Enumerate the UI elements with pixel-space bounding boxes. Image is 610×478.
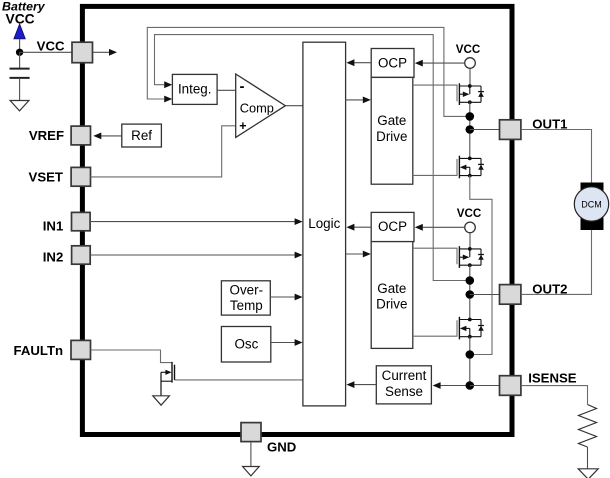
svg-text:-: - [240, 78, 245, 95]
pin OUT2 [500, 281, 568, 304]
svg-text:VSET: VSET [29, 170, 63, 185]
wire Gate Drive 1 to Q2 gate [413, 159, 457, 175]
block Ref [122, 124, 162, 147]
wire Current Sense to Logic arrow [346, 381, 376, 388]
svg-text:FAULTn: FAULTn [14, 343, 64, 358]
wire node to capacitor [19, 52, 21, 68]
wire IN1 to Logic [90, 218, 303, 225]
wire OUT1 pin to motor [521, 130, 592, 183]
ground battery [10, 101, 29, 111]
node phase OUT2 [466, 290, 475, 299]
pin ISENSE [500, 370, 577, 395]
transistor Q4 low-side OUT2 [459, 317, 484, 340]
svg-text:IN2: IN2 [43, 249, 64, 264]
wire VCC2 to OCP2 arrow [415, 224, 465, 231]
svg-text:VCC: VCC [456, 43, 481, 56]
label VCC supply 2 [457, 207, 482, 220]
block Gate Drive 1 [371, 77, 413, 184]
wire resistor to ground [587, 447, 589, 469]
wire OCP2 to Logic arrow [346, 224, 371, 231]
wire Q4 source to sense node [469, 337, 471, 386]
pin OUT1 [500, 117, 568, 140]
pin VCC [37, 38, 93, 62]
svg-text:Osc: Osc [234, 336, 258, 351]
svg-text:VCC: VCC [457, 207, 482, 220]
wire Logic to Gate Drive 2 arrow [346, 251, 371, 258]
svg-text:VREF: VREF [29, 128, 64, 143]
pin FAULTn [14, 340, 91, 359]
svg-text:IN1: IN1 [43, 219, 64, 234]
svg-text:VCC: VCC [37, 38, 65, 53]
wire IN2 to Logic [90, 252, 302, 259]
wire VCC1 to OCP1 arrow [415, 60, 465, 67]
transistor Q2 low-side OUT1 [459, 156, 484, 179]
capacitor C1 [10, 69, 30, 78]
pin VSET [29, 167, 91, 186]
terminal VCC supply 2 [465, 222, 476, 233]
wire Ref to VREF arrow [93, 133, 122, 140]
motor DCM [574, 183, 608, 231]
wire FAULTn to fault transistor drain [91, 350, 173, 363]
wire Integ to comparator minus input [217, 89, 236, 91]
svg-text:Temp: Temp [230, 298, 263, 313]
block Osc [221, 327, 270, 363]
wire Logic to fault transistor gate [175, 379, 303, 381]
pin IN1 [43, 212, 90, 233]
wire sense node to ISENSE pin [470, 385, 500, 387]
label VCC battery [6, 11, 35, 26]
ground GND pin [243, 467, 260, 476]
svg-text:OCP: OCP [378, 219, 407, 234]
block Logic [303, 42, 346, 406]
wire Gate Drive 1 to Q1 gate [413, 85, 457, 101]
wire Q3 source to phase node OUT2 [469, 265, 471, 319]
svg-text:ISENSE: ISENSE [528, 370, 577, 385]
svg-text:GND: GND [267, 439, 296, 454]
node phase OUT2 feedback [466, 276, 475, 285]
node phase OUT1 feedback [466, 112, 475, 121]
node battery VCC [16, 49, 23, 56]
wire capacitor to ground [19, 78, 21, 101]
wire node to VCC pin [20, 51, 72, 53]
node phase OUT1 [466, 125, 475, 134]
wire battery arrow to node [19, 39, 21, 53]
wire comparator output to Logic [285, 105, 303, 107]
wire GND pin to ground [250, 442, 252, 467]
ground fault transistor [153, 396, 170, 405]
svg-text:Gate: Gate [377, 281, 406, 296]
wire Logic to Gate Drive 1 arrow [346, 97, 371, 104]
resistor Rsense [579, 405, 597, 448]
svg-text:Logic: Logic [308, 216, 340, 231]
node sense B [466, 381, 475, 390]
svg-text:Gate: Gate [377, 113, 406, 128]
wire VSET to comparator plus input [91, 126, 236, 177]
block Current Sense [376, 366, 431, 404]
svg-text:Drive: Drive [376, 297, 407, 312]
terminal VCC supply 1 [465, 58, 476, 69]
wire OCP1 to Logic arrow [346, 59, 371, 66]
battery supply arrow (blue) [14, 24, 25, 39]
pin VREF [29, 126, 91, 145]
svg-text:Sense: Sense [385, 384, 423, 399]
svg-text:Current: Current [382, 368, 427, 383]
transistor Q1 high-side OUT1 [459, 83, 484, 105]
wire Gate Drive 2 to Q4 gate [413, 320, 457, 336]
pin IN2 [43, 246, 90, 265]
feedback wire outer loop OUT1 to Integ lower input [147, 27, 470, 116]
svg-text:Ref: Ref [131, 128, 152, 143]
svg-text:OCP: OCP [378, 55, 407, 70]
wire motor to OUT2 pin [521, 230, 592, 295]
label VCC supply 1 [456, 43, 481, 56]
wire phase node to OUT1 pin [470, 129, 500, 131]
block Gate Drive 2 [371, 242, 413, 349]
ground resistor [578, 469, 598, 478]
label Battery [2, 0, 46, 14]
svg-text:Over-: Over- [230, 282, 263, 297]
svg-text:Integ.: Integ. [178, 82, 212, 97]
block OCP1 [371, 49, 414, 78]
svg-text:DCM: DCM [581, 199, 602, 209]
wire VCC1 to Q1 drain [469, 68, 471, 86]
wire Over-Temp to Logic arrow [270, 294, 302, 301]
wire sense node to Current Sense arrow [433, 382, 470, 389]
op-amp Comp [236, 74, 286, 137]
transistor Q5 fault open-drain [161, 362, 175, 396]
chip outline U1 [82, 6, 512, 434]
svg-text:Comp: Comp [240, 101, 274, 116]
node sense A [466, 350, 475, 359]
wire ISENSE pin to resistor [521, 386, 588, 405]
wire Q1 source to phase node OUT1 [469, 102, 471, 158]
transistor Q3 high-side OUT2 [459, 246, 484, 268]
wire VCC pin arrow into chip [93, 49, 118, 56]
block Over-Temp [221, 281, 270, 315]
block Integ U2 [172, 74, 217, 104]
wire VCC2 to Q3 drain [469, 233, 471, 249]
wire Gate Drive 2 to Q3 gate [413, 248, 457, 264]
svg-text:Drive: Drive [376, 129, 407, 144]
wire Osc to Logic arrow [271, 339, 303, 346]
wire phase node to OUT2 pin [470, 294, 500, 296]
svg-text:+: + [239, 119, 246, 133]
pin GND [241, 423, 296, 455]
block OCP2 [371, 212, 414, 241]
wire Q2 source to sense node [470, 176, 492, 355]
feedback wire inner loop OUT2 to Integ upper input [155, 35, 470, 281]
